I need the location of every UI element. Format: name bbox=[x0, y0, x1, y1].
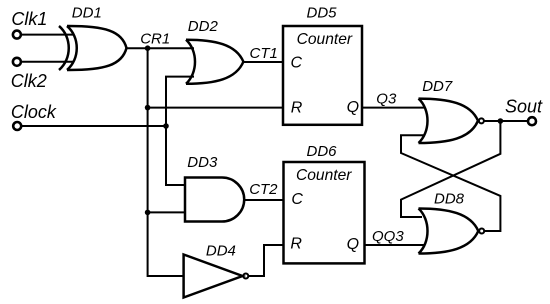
bubble of DD4 bbox=[243, 274, 248, 279]
and gate DD3 bbox=[185, 178, 244, 222]
wire feedback DD7 output to DD8 upper input bbox=[401, 121, 500, 217]
svg-text:DD8: DD8 bbox=[434, 190, 465, 207]
svg-text:DD3: DD3 bbox=[187, 154, 218, 171]
svg-text:QQ3: QQ3 bbox=[372, 228, 404, 245]
nor gate DD8 bbox=[419, 209, 479, 254]
terminal Sout bbox=[528, 117, 536, 125]
wire CR1 vertical bus down to DD4 input bbox=[148, 48, 184, 276]
counter DD6 bbox=[284, 162, 365, 263]
svg-text:DD2: DD2 bbox=[188, 18, 219, 35]
svg-text:Q: Q bbox=[347, 99, 359, 116]
inverter DD4 bbox=[184, 255, 243, 298]
counter DD5 bbox=[283, 26, 362, 125]
wire DD4 output to DD6 R bbox=[248, 245, 283, 276]
svg-text:Counter: Counter bbox=[296, 167, 352, 184]
junction Sout node bbox=[498, 118, 504, 124]
wire Clock down to DD3 upper input bbox=[166, 126, 185, 185]
svg-text:R: R bbox=[290, 236, 302, 253]
wire DD7 output to Sout bbox=[484, 120, 528, 122]
junction CR1 bus to DD3 lower input bbox=[145, 210, 151, 216]
svg-text:Counter: Counter bbox=[297, 31, 353, 48]
wire DD1 output to node CR1 and DD2 input bbox=[127, 47, 195, 49]
terminal Clk1 bbox=[13, 31, 21, 39]
or gate DD2 bbox=[186, 40, 243, 84]
svg-text:DD5: DD5 bbox=[307, 5, 338, 22]
wire CT2 DD3 output to DD6 C bbox=[244, 199, 283, 201]
svg-text:CT1: CT1 bbox=[250, 45, 278, 62]
junction CR1 bus to DD5 R line bbox=[145, 105, 151, 111]
wire feedback DD8 output to DD7 lower input bbox=[401, 135, 500, 231]
svg-text:C: C bbox=[291, 54, 303, 71]
node CR1 junction bbox=[145, 45, 151, 51]
wire Clock bbox=[21, 125, 166, 127]
bubble of DD8 bbox=[479, 229, 484, 234]
svg-text:CT2: CT2 bbox=[249, 181, 278, 198]
svg-text:Sout: Sout bbox=[505, 97, 543, 117]
svg-text:Clk2: Clk2 bbox=[11, 71, 47, 91]
junction Clock node bbox=[163, 123, 169, 129]
wire Clk2 to DD1 bbox=[21, 61, 74, 63]
svg-text:R: R bbox=[291, 100, 303, 117]
wire Clock up to DD2 lower input bbox=[166, 77, 194, 126]
svg-text:CR1: CR1 bbox=[140, 31, 170, 48]
svg-text:Q: Q bbox=[347, 236, 359, 253]
svg-text:DD7: DD7 bbox=[422, 78, 453, 95]
svg-text:Q3: Q3 bbox=[376, 91, 397, 108]
bubble of DD7 bbox=[479, 118, 484, 123]
svg-text:Clock: Clock bbox=[11, 102, 57, 122]
terminal Clock bbox=[13, 122, 21, 130]
svg-text:Clk1: Clk1 bbox=[11, 9, 47, 29]
svg-text:DD1: DD1 bbox=[72, 4, 102, 21]
wire Q3 DD5 output to DD7 input bbox=[362, 107, 424, 109]
wire Clk1 to DD1 bbox=[21, 34, 74, 36]
wire QQ3 DD6 output to DD8 input bbox=[365, 244, 425, 246]
wire DD3 lower input bbox=[148, 211, 185, 213]
svg-text:C: C bbox=[291, 191, 303, 208]
svg-text:DD6: DD6 bbox=[307, 143, 338, 160]
terminal Clk2 bbox=[13, 58, 21, 66]
wire DD5 R input bbox=[148, 107, 283, 109]
xor gate DD1 bbox=[59, 26, 127, 70]
wire CT1 DD2 output to DD5 C bbox=[243, 61, 283, 63]
svg-text:DD4: DD4 bbox=[206, 242, 236, 259]
nor gate DD7 bbox=[419, 99, 479, 143]
